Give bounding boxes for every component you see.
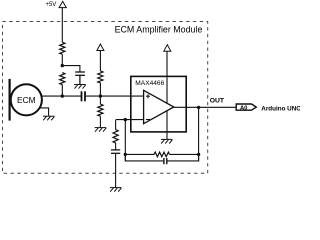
wire inverting input — [116, 119, 144, 121]
resistor R3 — [98, 71, 103, 83]
ground for C1 — [74, 85, 86, 89]
junction feedback right — [197, 153, 200, 156]
wire inverting branch to R5 — [115, 120, 117, 130]
op-amp minus sign — [146, 119, 150, 121]
wire feedback right leg — [198, 107, 200, 161]
+5V supply V1 triangle — [59, 1, 66, 7]
wire feedback upper left segment — [125, 153, 154, 155]
wire C3 to ground — [115, 153, 117, 187]
ground for ECM — [43, 116, 55, 120]
wire op-amp ground pin — [166, 111, 168, 140]
wire R5 to C3 — [115, 143, 117, 150]
wire C2 to op-amp plus input — [85, 95, 144, 97]
ground for R4 — [95, 128, 107, 132]
wire R1 to bias node — [61, 54, 63, 65]
junction output node — [197, 106, 200, 109]
op-amp U1 — [144, 90, 174, 123]
svg-text:+5V: +5V — [45, 2, 56, 8]
wire V1 to R1 — [61, 8, 63, 43]
wire R3 to main line — [99, 83, 101, 96]
junction inverting node — [124, 118, 127, 121]
svg-text:MAX4466: MAX4466 — [135, 80, 164, 87]
wire feedback lower right segment — [167, 154, 199, 161]
wire feedback left leg — [124, 120, 126, 161]
wire V2 to R3 — [99, 51, 101, 71]
resistor R2 — [60, 73, 65, 85]
wire bias node to C1 — [62, 66, 80, 72]
svg-text:OUT: OUT — [210, 97, 225, 104]
resistor R5 — [113, 130, 118, 143]
ground for C3 — [110, 188, 122, 192]
resistor R4 — [98, 104, 103, 116]
capacitor C3 — [111, 150, 120, 153]
svg-text:Arduino UNO: Arduino UNO — [261, 105, 300, 112]
svg-text:ECM: ECM — [17, 95, 36, 105]
resistor R1 — [60, 42, 65, 54]
wire ECM to ground — [40, 108, 49, 116]
capacitor C2 coupling — [82, 91, 86, 101]
wire ECM output to C2 — [42, 95, 82, 97]
capacitor C1 — [75, 72, 85, 84]
module boundary dashed box — [3, 22, 208, 174]
electret mic ECM body — [11, 84, 42, 115]
feedback resistor R6 — [154, 152, 169, 157]
svg-text:ECM Amplifier Module: ECM Amplifier Module — [115, 25, 203, 35]
MAX4466 module box — [131, 76, 186, 131]
+5V supply V2 triangle — [97, 44, 104, 51]
electret mic ECM plate — [9, 79, 11, 121]
wire R4 to ground — [99, 116, 101, 127]
svg-text:A0: A0 — [240, 105, 247, 111]
+5V supply V3 triangle — [164, 45, 171, 52]
wire feedback upper right segment — [170, 153, 199, 155]
wire main line to R4 — [99, 96, 101, 104]
feedback capacitor C4 — [164, 158, 167, 164]
wire feedback lower left segment — [125, 154, 164, 161]
junction bias divider — [99, 94, 102, 97]
pin tag A0 — [236, 104, 256, 110]
junction rail / main line — [61, 94, 64, 97]
op-amp plus sign — [146, 94, 150, 98]
wire op-amp output to A0 — [174, 106, 236, 108]
wire R2 to main line — [61, 85, 63, 97]
wire V3 to op-amp V+ pin — [166, 51, 168, 103]
junction bias node — [61, 64, 64, 67]
junction feedback left — [124, 153, 127, 156]
ground for op-amp — [161, 139, 173, 143]
